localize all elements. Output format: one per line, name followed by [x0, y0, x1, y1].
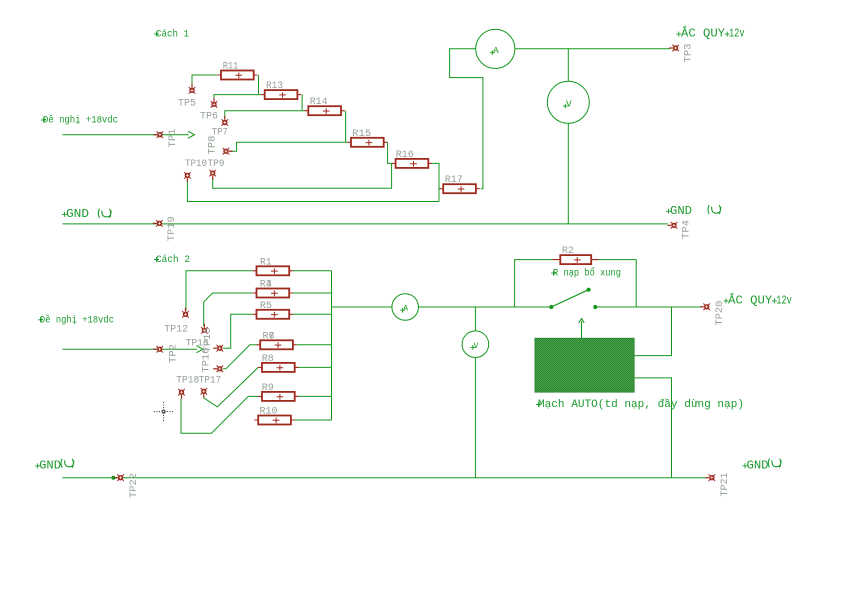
meter A1 (ammeter, cach 1) [476, 29, 515, 68]
label Mach AUTO [536, 402, 541, 407]
wire TP5 to R11 left [192, 75, 217, 86]
svg-text:R13: R13 [266, 81, 283, 92]
svg-text:TP8: TP8 [208, 136, 219, 155]
svg-text:TP20: TP20 [715, 301, 726, 326]
test point TP4 [667, 222, 677, 229]
test point TP1 [153, 131, 163, 138]
wire R17 right up to ammeter [450, 49, 483, 189]
junction dot near TP22 [111, 476, 115, 480]
resistor R8 [258, 354, 298, 372]
label R nap bo xung [551, 271, 556, 276]
svg-text:12v: 12v [776, 293, 792, 307]
resistor R15 [347, 129, 387, 147]
wire V2 down to GND rail 2 [474, 358, 476, 478]
box Mach AUTO [535, 338, 634, 392]
label AC QUY 12v (bottom) [724, 298, 729, 303]
svg-text:TP9: TP9 [208, 159, 225, 170]
wire TP7 to R14 left [225, 111, 305, 119]
svg-text:R5: R5 [260, 301, 272, 312]
svg-text:TP22: TP22 [129, 473, 140, 498]
resistor R16 [392, 150, 432, 168]
svg-text:Mạch AUTO(td nạp, đầy dừng nạp: Mạch AUTO(td nạp, đầy dừng nạp) [538, 398, 744, 411]
switch left contact [549, 305, 553, 309]
svg-text:R10: R10 [260, 407, 278, 418]
switch lever tip [587, 288, 591, 292]
wire TP6 to R12 left [214, 95, 261, 101]
svg-text:R14: R14 [310, 97, 328, 108]
svg-text:Cách 2: Cách 2 [156, 254, 190, 266]
test point TP13 [201, 324, 208, 334]
caption Cach 2 [154, 257, 159, 262]
wire AUTO box right lower to GND [634, 378, 671, 478]
test point TP12 [182, 308, 189, 318]
svg-text:7: 7 [269, 331, 275, 342]
label 12v (bottom) [772, 298, 777, 303]
wire R1 left to TP12 [186, 271, 253, 311]
test point TP15 [213, 345, 223, 352]
test point TP19 [153, 220, 163, 227]
label GND (bottom left) [35, 463, 40, 468]
caption Cach 1 [154, 32, 159, 37]
svg-text:TP6: TP6 [200, 112, 218, 123]
symbol (_) bottom left [61, 459, 74, 468]
wire R3 left to TP13 [204, 293, 253, 326]
svg-text:Đề nghị +18vdc: Đề nghị +18vdc [40, 313, 114, 326]
wire junction to V1 [567, 49, 569, 82]
label De nghi +18vdc (top) [41, 118, 46, 123]
test point TP16 [213, 366, 223, 373]
svg-text:R8: R8 [262, 354, 274, 365]
wire R12 right down to row3 [301, 95, 303, 111]
test point TP2 [153, 346, 163, 353]
arrowhead input 2 [197, 346, 203, 353]
test point TP7 [222, 116, 229, 126]
wire R8 left diagonal to TP17 [204, 367, 258, 407]
resistor R9 [258, 383, 298, 401]
svg-text:TP16: TP16 [201, 348, 212, 373]
symbol (_) top left [98, 209, 111, 218]
svg-text:TP1: TP1 [168, 129, 179, 148]
wire bus right of R1 [293, 270, 332, 272]
AUTO control arrow [579, 319, 584, 339]
svg-text:TP18: TP18 [176, 375, 199, 386]
label GND (top right) [666, 209, 671, 214]
svg-text:R15: R15 [352, 129, 371, 140]
svg-text:R16: R16 [396, 150, 414, 161]
svg-text:TP2: TP2 [169, 344, 180, 363]
svg-text:TP19: TP19 [167, 216, 178, 241]
switch right contact [593, 305, 597, 309]
meter V1 (voltmeter, cach 1) [547, 81, 589, 123]
wire V2 riser [474, 307, 476, 331]
resistor R17 [439, 175, 479, 193]
svg-text:V: V [566, 99, 572, 110]
wire R6 left diagonal to TP16 [223, 345, 256, 369]
resistor R6 R7 (overlapped) [256, 331, 296, 349]
svg-text:ẮC QUY: ẮC QUY [681, 25, 725, 41]
wire GND rail 1 [63, 223, 668, 225]
test point TP20 [700, 304, 710, 311]
wire bus right of R6 [297, 344, 332, 346]
wire TP9 loop to R16 left [213, 164, 392, 189]
wire V1 down to GND rail 1 [567, 123, 569, 224]
wire bus right of R8 [299, 366, 332, 368]
label GND (top left) [62, 212, 67, 217]
test point TP17 [201, 388, 208, 398]
arrowhead input 1 [188, 131, 194, 138]
symbol (_) top right [708, 205, 721, 214]
svg-text:Cách 1: Cách 1 [156, 29, 189, 41]
svg-text:4: 4 [266, 280, 272, 291]
svg-text:TP12: TP12 [164, 324, 188, 335]
wire R16 right to x439 [432, 163, 439, 201]
svg-text:A: A [403, 305, 408, 314]
test point TP21 [705, 474, 715, 481]
wire R15 right down to row5 [388, 142, 392, 163]
svg-text:GND: GND [747, 458, 769, 472]
test point TP5 [189, 84, 196, 94]
wire R5 left to TP15 [223, 314, 253, 348]
test point TP9 [209, 170, 216, 180]
label De nghi +18vdc (bottom) [38, 317, 43, 322]
wire bus right of R3 [293, 292, 332, 294]
wire GND rail 2 [63, 477, 707, 479]
svg-text:GND: GND [66, 207, 89, 221]
resistor R1 [253, 257, 293, 275]
meter A2 (ammeter, cach 2) [392, 294, 419, 321]
origin crosshair (dotted) [154, 402, 174, 421]
svg-text:TP5: TP5 [178, 99, 196, 110]
wire R2 branch down-right [599, 260, 637, 307]
svg-text:A: A [493, 45, 499, 56]
test point TP22 [114, 474, 124, 481]
wire A2 to switch [419, 306, 552, 308]
wire R2 branch up-left [515, 260, 553, 307]
svg-text:R9: R9 [262, 383, 274, 394]
svg-text:R11: R11 [223, 62, 239, 73]
wire A1 to TP3 [515, 48, 670, 50]
label 12v (top) [725, 32, 730, 37]
wire bus tap to A2 [332, 306, 392, 308]
resistor R14 [305, 97, 345, 115]
test point TP10 [184, 172, 191, 182]
svg-text:R nạp bổ xung: R nạp bổ xung [553, 267, 621, 280]
svg-text:TP3: TP3 [684, 44, 695, 63]
svg-text:R2: R2 [562, 246, 574, 257]
resistor R5 [253, 301, 293, 319]
wire vertical bus [331, 271, 333, 420]
svg-text:12v: 12v [729, 27, 745, 41]
wire AUTO box right upper [634, 307, 671, 356]
svg-text:GND: GND [39, 458, 61, 472]
wire TP10 loop to R17 left [187, 180, 439, 202]
label GND (bottom right) [743, 463, 748, 468]
svg-text:ẮC QUY: ẮC QUY [728, 291, 772, 307]
resistor R10 [254, 407, 294, 425]
switch lever [551, 290, 588, 307]
svg-text:TP4: TP4 [682, 220, 693, 239]
test point TP8 [223, 148, 233, 155]
resistor R3 R4 (overlapped) [253, 280, 293, 298]
symbol (_) bottom right [768, 459, 781, 468]
wire bus right of R5 [293, 313, 332, 315]
svg-text:TP10: TP10 [185, 159, 207, 170]
test point TP6 [211, 98, 218, 108]
svg-text:TP21: TP21 [720, 473, 731, 497]
resistor R2 [553, 246, 599, 264]
svg-text:GND: GND [670, 204, 692, 218]
wire R14 right down to row4 [345, 111, 347, 143]
label AC QUY 12v (top) [676, 32, 681, 37]
resistor R11 [217, 62, 257, 80]
svg-text:R1: R1 [260, 257, 272, 268]
wire R11 right down to row2 [258, 75, 260, 95]
svg-text:R17: R17 [445, 175, 463, 186]
wire bus right of R9 [299, 395, 332, 397]
wire bus right of R10 [295, 419, 332, 421]
meter V2 (voltmeter, cach 2) [462, 331, 489, 358]
test point TP18 [178, 389, 185, 399]
svg-text:Đề nghị +18vdc: Đề nghị +18vdc [43, 114, 118, 127]
wire input 2 (+18vdc feed) [63, 348, 198, 350]
resistor R12 [261, 81, 301, 99]
wire input 1 (+18vdc feed) [63, 134, 189, 136]
wire R9 left loop to TP18 [181, 396, 258, 433]
wire TP8 to R15 left [229, 142, 347, 151]
svg-text:V: V [473, 342, 478, 351]
wire switch to TP20 [595, 306, 702, 308]
test point TP3 [669, 45, 679, 52]
svg-text:TP17: TP17 [199, 375, 222, 386]
